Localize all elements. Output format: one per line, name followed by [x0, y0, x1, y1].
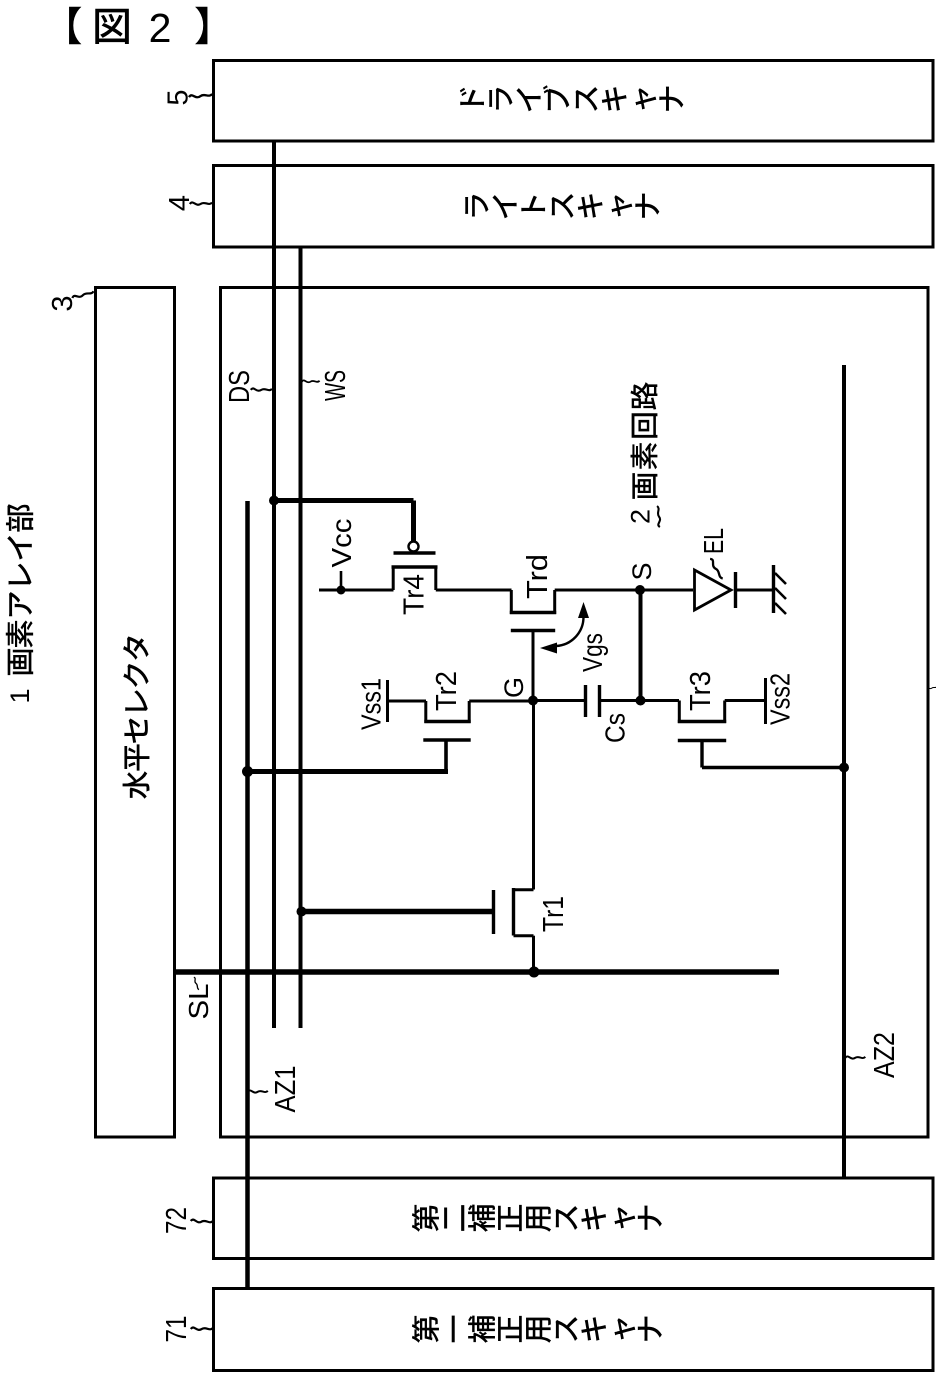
wire thick AZ1 gate bus — [248, 769, 449, 774]
wire node S to EL anode — [640, 589, 693, 592]
leader squiggle for label 72 — [191, 1218, 213, 1224]
svg-text:2: 2 — [626, 509, 656, 524]
transistor Trd (drive transistor) — [510, 590, 513, 614]
svg-text:Cs: Cs — [600, 713, 631, 743]
ground (cathode ground) — [772, 565, 775, 613]
figure title 【図2】 — [69, 7, 81, 44]
leader squiggle for WS — [302, 379, 320, 383]
block 4: write scanner box (ライトスキャナ) — [214, 166, 934, 248]
Vgs arc arrow with arrowheads — [556, 617, 584, 646]
block 72 title text — [412, 1205, 439, 1232]
node: Vcc tap dot — [337, 586, 346, 595]
block 5: drive scanner box (ドライブスキャナ) — [214, 61, 934, 142]
svg-text:1: 1 — [5, 688, 35, 703]
svg-text:Vgs: Vgs — [577, 633, 608, 672]
wire thick bus from DS to Tr4 gate — [274, 498, 414, 503]
node: AZ1 junction dot — [242, 766, 253, 777]
leader squiggle for EL — [710, 558, 723, 580]
svg-text:5: 5 — [162, 89, 194, 105]
leader squiggle for SL — [194, 977, 199, 990]
wire WS vertical scan line — [299, 247, 303, 1028]
svg-text:Vss1: Vss1 — [356, 678, 387, 730]
svg-text:AZ1: AZ1 — [270, 1066, 302, 1113]
node: AZ2 junction dot — [839, 763, 849, 773]
node S dot — [635, 585, 645, 595]
node: junction DS to Tr4 gate bus — [269, 496, 279, 506]
block 4 title text — [465, 195, 488, 217]
svg-text:72: 72 — [161, 1207, 193, 1234]
svg-text:2: 2 — [149, 5, 172, 51]
wire thick WS to Tr1 gate — [302, 909, 494, 915]
wire Tr3 drain to Vss2 terminal — [725, 699, 764, 702]
svg-text:AZ2: AZ2 — [869, 1032, 901, 1078]
wire Trd gate lead down to node G — [532, 631, 535, 701]
wire Vcc label tick — [340, 571, 343, 590]
transistor Tr4 (p-channel, gate bubble) — [409, 542, 419, 552]
svg-text:S: S — [627, 562, 657, 580]
pixel array outer box — [221, 288, 929, 1138]
wire junction to Tr3 source — [641, 699, 680, 702]
wire AZ1 vertical scan line — [245, 501, 250, 1289]
wire Cs right plate to junction — [600, 699, 641, 702]
svg-text:Tr4: Tr4 — [398, 574, 430, 615]
wire Tr2 gate lead down to AZ1 bus — [444, 740, 448, 772]
wire Tr3 gate lead to AZ2 line — [700, 741, 703, 768]
leader squiggle for DS — [251, 387, 272, 392]
block 3: horizontal selector box (水平セレクタ) — [96, 288, 175, 1138]
svg-text:3: 3 — [47, 295, 79, 311]
wire Vss1 to Tr2 source — [388, 700, 427, 703]
wire Tr2 drain to node G — [469, 700, 533, 703]
leader squiggle for label 71 — [191, 1326, 213, 1331]
wire AZ2 vertical scan line — [842, 365, 846, 1178]
svg-text:Trd: Trd — [522, 554, 554, 599]
wire Tr4 drain to Trd drain — [436, 589, 512, 592]
leader squiggle at right box edge — [927, 687, 936, 689]
svg-text:Vss2: Vss2 — [765, 673, 796, 725]
svg-text:EL: EL — [698, 528, 729, 554]
wire SL signal line — [175, 969, 779, 975]
block 71: first correction scanner box (第一補正用スキャナ) — [214, 1289, 934, 1371]
block 5 title text — [460, 88, 484, 105]
wire node G to Cs left plate — [533, 699, 586, 702]
leader squiggle for label 5 — [189, 94, 212, 97]
leader squiggle for AZ1 — [248, 1089, 268, 1094]
transistor Tr2 — [424, 701, 427, 723]
svg-text:Vcc: Vcc — [326, 519, 357, 568]
svg-text:Tr2: Tr2 — [431, 671, 463, 711]
wire DS vertical scan line — [272, 141, 276, 1028]
leader squiggle for label 2 — [657, 506, 660, 527]
wire Tr1 source down to SL — [532, 936, 535, 972]
leader squiggle for label 4 — [190, 201, 212, 206]
wire Trd source to node S — [555, 589, 640, 592]
terminal Vss2 T-bar — [764, 678, 767, 724]
svg-text:Tr3: Tr3 — [685, 671, 717, 711]
svg-text:Tr1: Tr1 — [538, 896, 570, 932]
node: Tr1/SL junction dot — [529, 967, 540, 978]
svg-text:71: 71 — [161, 1316, 193, 1343]
transistor Tr1 (sampling transistor) — [492, 890, 495, 934]
transistor Tr3 — [678, 701, 681, 724]
node: WS junction dot — [297, 907, 307, 917]
svg-text:G: G — [499, 677, 529, 698]
svg-text:DS: DS — [224, 370, 256, 403]
wire node G down to Tr1 — [532, 701, 535, 890]
block 3 title text — [123, 771, 150, 799]
wire node S down to Cs/Tr3 junction — [639, 590, 643, 701]
svg-text:WS: WS — [320, 370, 352, 401]
diode EL (organic EL element) — [695, 570, 732, 610]
node G dot — [528, 696, 538, 706]
block 72: second correction scanner box (第二補正用スキャナ) — [214, 1178, 934, 1259]
node: Cs/S/Tr3 junction dot — [636, 696, 646, 706]
leader squiggle for label 3 — [72, 291, 94, 298]
capacitor Cs — [584, 685, 587, 717]
wire Vcc stub — [319, 589, 394, 592]
wire EL cathode to ground — [736, 589, 773, 592]
leader squiggle for AZ2 — [845, 1055, 865, 1060]
block 71 title text — [412, 1316, 439, 1343]
terminal Vss1 T-bar — [386, 680, 389, 722]
